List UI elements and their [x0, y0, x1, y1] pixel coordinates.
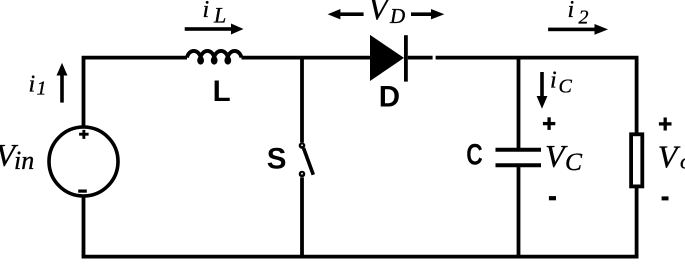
current arrow iC (down)	[537, 72, 548, 109]
load resistor Vo rectangle	[631, 134, 642, 186]
inductor bottom loops	[197, 56, 231, 64]
wire: switch branch bottom	[300, 177, 304, 256]
svg-text:i: i	[203, 0, 210, 23]
wire: bottom rail	[82, 255, 639, 259]
wire: inductor right to diode anode (junction at switch x=302)	[242, 56, 371, 60]
voltage arrow VD right	[411, 9, 444, 19]
source plus sign	[79, 130, 89, 139]
wire: capacitor branch bottom	[517, 167, 521, 257]
svg-text:o: o	[680, 148, 685, 173]
capacitor C top plate	[496, 148, 542, 152]
svg-text:C: C	[559, 76, 573, 98]
inductor L coil	[187, 51, 241, 58]
svg-text:C: C	[466, 139, 483, 172]
diode D cathode bar	[404, 35, 408, 81]
current arrow i2 (right)	[548, 24, 608, 35]
load minus sign	[662, 196, 669, 200]
switch S blade	[304, 148, 314, 175]
current arrow iL (right)	[185, 24, 244, 35]
switch S bottom contact dot	[299, 171, 306, 178]
switch S top contact dot	[299, 142, 306, 149]
svg-text:D: D	[379, 80, 400, 113]
wire: source top to inductor left (top-left corner)	[84, 58, 188, 127]
wire: switch branch top	[300, 58, 304, 143]
svg-text:V: V	[658, 138, 681, 174]
svg-text:L: L	[213, 3, 226, 28]
load plus sign	[659, 118, 672, 131]
capacitor C bottom plate	[496, 163, 542, 167]
current arrow i1 (up)	[57, 63, 68, 103]
svg-text:i: i	[29, 72, 36, 98]
svg-text:i: i	[568, 0, 575, 23]
svg-text:2: 2	[579, 7, 589, 29]
wire: source bottom to bottom rail (bottom-left corner)	[82, 198, 86, 257]
svg-text:1: 1	[37, 78, 47, 100]
svg-text:C: C	[565, 147, 583, 176]
svg-text:S: S	[267, 142, 287, 175]
voltage arrow VD left	[328, 9, 364, 19]
wire: capacitor branch top	[517, 58, 521, 148]
wire: diode cathode to small gap	[408, 56, 433, 60]
voltage source Vin circle	[49, 127, 118, 196]
svg-text:D: D	[389, 4, 405, 28]
diode D triangle	[370, 35, 404, 81]
svg-text:V: V	[368, 0, 391, 27]
source minus sign	[78, 190, 87, 193]
svg-text:L: L	[213, 75, 231, 108]
wire: load bottom to bottom rail	[635, 188, 639, 257]
wire: gap to top-right corner, down to load top (junction at cap x=518.5)	[436, 58, 637, 133]
svg-text:i: i	[550, 68, 557, 94]
svg-text:in: in	[14, 146, 34, 175]
capacitor plus sign	[543, 117, 555, 130]
capacitor minus sign	[549, 196, 556, 200]
